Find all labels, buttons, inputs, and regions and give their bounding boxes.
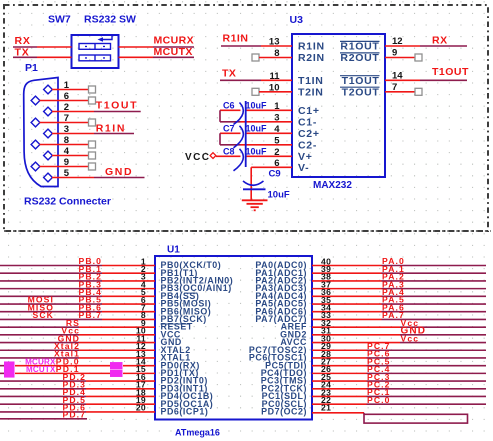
svg-text:SCK: SCK xyxy=(33,310,54,320)
svg-text:GND: GND xyxy=(105,166,133,178)
svg-text:MCURX: MCURX xyxy=(154,35,195,47)
svg-text:10uF: 10uF xyxy=(246,123,268,133)
svg-text:RS232 SW: RS232 SW xyxy=(84,14,136,26)
svg-text:RS232 Connecter: RS232 Connecter xyxy=(24,196,111,208)
svg-text:RX: RX xyxy=(15,35,31,47)
svg-text:U3: U3 xyxy=(290,14,304,26)
svg-text:8: 8 xyxy=(274,48,279,59)
svg-text:P1: P1 xyxy=(25,62,38,74)
svg-text:PC.0: PC.0 xyxy=(367,395,391,405)
svg-text:C8: C8 xyxy=(223,146,235,156)
svg-text:Vcc: Vcc xyxy=(401,333,420,343)
svg-text:RX: RX xyxy=(432,34,448,46)
svg-text:TX: TX xyxy=(222,68,236,80)
svg-text:MCUTX: MCUTX xyxy=(26,365,56,374)
svg-text:R1IN: R1IN xyxy=(298,41,325,53)
svg-text:T1OUT: T1OUT xyxy=(342,75,380,87)
svg-text:PD6(ICP1): PD6(ICP1) xyxy=(161,406,209,416)
svg-text:C9: C9 xyxy=(269,168,281,179)
svg-text:VCC: VCC xyxy=(185,152,210,163)
svg-text:C1-: C1- xyxy=(298,116,317,128)
svg-text:T1OUT: T1OUT xyxy=(96,99,138,111)
svg-text:T2IN: T2IN xyxy=(298,86,324,98)
svg-text:R1IN: R1IN xyxy=(96,123,126,135)
svg-text:11: 11 xyxy=(269,71,280,82)
svg-text:ATmega16: ATmega16 xyxy=(175,428,220,438)
svg-text:T1IN: T1IN xyxy=(298,75,324,87)
svg-text:9: 9 xyxy=(392,48,397,59)
svg-text:R1IN: R1IN xyxy=(223,32,249,44)
svg-text:14: 14 xyxy=(392,71,403,82)
svg-text:10: 10 xyxy=(269,82,280,93)
svg-text:C7: C7 xyxy=(223,123,235,133)
svg-text:SW7: SW7 xyxy=(48,14,71,26)
svg-text:T1OUT: T1OUT xyxy=(432,66,469,78)
svg-text:C1+: C1+ xyxy=(298,105,320,117)
svg-text:10uF: 10uF xyxy=(246,100,268,110)
svg-text:10uF: 10uF xyxy=(246,146,268,156)
svg-text:U1: U1 xyxy=(167,245,180,256)
svg-text:C2+: C2+ xyxy=(298,128,320,140)
svg-text:C6: C6 xyxy=(223,100,235,110)
svg-text:PB.7: PB.7 xyxy=(78,310,102,320)
svg-text:5: 5 xyxy=(274,135,280,146)
svg-text:R2IN: R2IN xyxy=(298,52,325,64)
svg-text:12: 12 xyxy=(392,36,403,47)
svg-text:R1OUT: R1OUT xyxy=(340,41,379,53)
svg-text:21: 21 xyxy=(321,403,331,413)
svg-text:13: 13 xyxy=(269,37,280,48)
svg-text:V-: V- xyxy=(298,162,309,174)
svg-text:R2OUT: R2OUT xyxy=(340,52,379,64)
svg-text:PD.7: PD.7 xyxy=(62,409,86,419)
svg-text:T2OUT: T2OUT xyxy=(342,86,380,98)
svg-text:PD7(OC2): PD7(OC2) xyxy=(261,406,307,416)
svg-text:7: 7 xyxy=(392,82,397,93)
svg-text:C2-: C2- xyxy=(298,139,317,151)
svg-text:MCUTX: MCUTX xyxy=(154,46,193,58)
svg-text:MAX232: MAX232 xyxy=(313,180,352,191)
svg-text:6: 6 xyxy=(274,158,279,169)
svg-text:10uF: 10uF xyxy=(268,190,290,201)
svg-text:3: 3 xyxy=(274,112,279,123)
